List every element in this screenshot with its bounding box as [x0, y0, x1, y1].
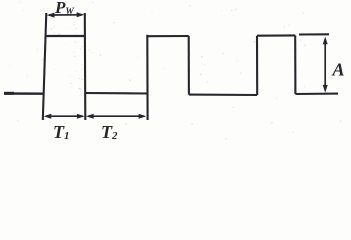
- dimension arrow T1 (double-headed): [44, 114, 85, 119]
- wire pulse1 left edge (extension line top and bottom): [43, 13, 47, 120]
- wire A-dimension top extension line: [299, 33, 329, 35]
- wire pulse3 top edge: [257, 34, 295, 36]
- wire pulse2 left edge extended below baseline: [146, 35, 148, 120]
- wire pulse2 top edge: [147, 35, 188, 37]
- wire baseline right segment: [295, 93, 338, 96]
- scan speckle texture: [9, 2, 341, 140]
- wire baseline left segment: [4, 92, 44, 95]
- wire pulse1 right edge (extension line top and bottom): [84, 13, 87, 120]
- svg-text:PW: PW: [54, 0, 75, 17]
- wire pulse2 right edge: [188, 36, 190, 95]
- wire pulse1 top edge: [46, 35, 85, 37]
- svg-text:A: A: [331, 59, 344, 79]
- dimension arrow T2 (double-headed): [86, 114, 146, 119]
- svg-text:T1: T1: [53, 122, 70, 142]
- dimension arrow PW (double-headed): [47, 12, 85, 17]
- wire pulse3 left edge: [256, 36, 258, 95]
- wire pulse3 right edge: [294, 35, 296, 94]
- wire baseline between pulse1 and pulse2: [85, 92, 148, 95]
- svg-text:T2: T2: [101, 122, 118, 142]
- wire baseline between pulse2 and pulse3: [189, 94, 257, 97]
- dimension arrow A (vertical double-headed): [323, 37, 328, 93]
